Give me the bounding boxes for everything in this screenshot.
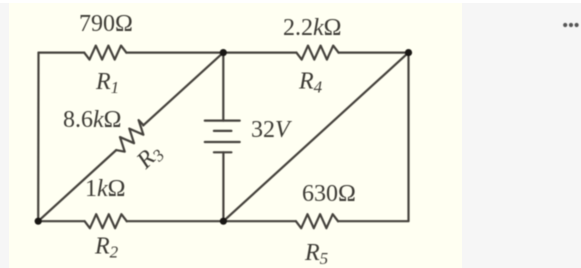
resistor R4	[296, 46, 338, 60]
wire top-middle segment	[126, 51, 296, 53]
wire diagonal lower (node A to R3)	[38, 150, 116, 221]
wire diagonal right (no resistor)	[223, 53, 408, 222]
wire top-right segment	[339, 51, 409, 53]
battery plate long	[205, 141, 240, 143]
battery bottom lead	[222, 152, 224, 221]
wire right vertical	[407, 53, 409, 221]
node top middle	[220, 49, 227, 56]
menu dots icon	[563, 23, 567, 27]
wire diagonal upper (R3 to top node)	[143, 53, 223, 126]
resistor R5	[296, 214, 338, 228]
battery plate short bottom	[214, 151, 232, 153]
battery V1 plate long top	[205, 119, 240, 121]
svg-text:790Ω: 790Ω	[79, 11, 133, 37]
node bottom middle	[220, 218, 227, 225]
svg-text:R4: R4	[298, 69, 323, 97]
node bottom left	[35, 218, 42, 225]
svg-text:R3: R3	[131, 139, 168, 176]
svg-text:R2: R2	[94, 234, 119, 262]
resistor R1	[84, 46, 126, 60]
svg-text:R1: R1	[95, 69, 119, 97]
wire bottom-middle segment	[127, 220, 296, 222]
wire bottom-left segment	[38, 220, 84, 222]
svg-text:8.6kΩ: 8.6kΩ	[63, 107, 122, 133]
svg-text:R5: R5	[304, 240, 328, 268]
battery plate short	[214, 130, 232, 132]
svg-text:32V: 32V	[251, 117, 292, 143]
wire top-left segment	[39, 51, 85, 53]
wire bottom-right segment	[338, 220, 409, 222]
svg-text:1kΩ: 1kΩ	[85, 176, 126, 202]
resistor R3	[111, 120, 148, 155]
resistor R2	[85, 214, 127, 228]
svg-text:630Ω: 630Ω	[302, 181, 356, 207]
svg-text:2.2kΩ: 2.2kΩ	[283, 15, 342, 41]
battery top lead	[222, 53, 224, 121]
wire left vertical	[37, 53, 39, 222]
node top right	[405, 49, 412, 56]
